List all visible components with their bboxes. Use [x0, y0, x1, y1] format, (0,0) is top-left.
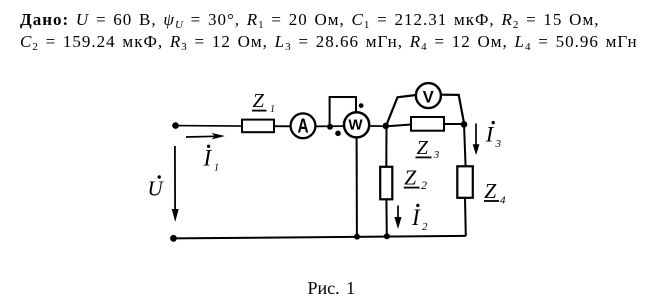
wire: Z2 down to bottom rail	[385, 199, 387, 236]
svg-text:Z: Z	[253, 90, 265, 112]
svg-text:W: W	[348, 117, 363, 134]
label I1	[203, 145, 220, 174]
impedance Z1	[242, 90, 275, 132]
impedance Z2	[380, 166, 427, 200]
svg-text:3: 3	[495, 138, 502, 150]
wire: wattmeter to node A	[369, 125, 387, 127]
label I2	[411, 204, 428, 233]
svg-text:1: 1	[270, 104, 275, 115]
polarity mark: top (voltage coil)	[359, 103, 364, 108]
wire: wattmeter voltage branch down to bottom rail	[356, 137, 358, 236]
current arrow I1	[186, 133, 225, 140]
wattmeter voltage coil loop	[330, 97, 356, 127]
svg-text:V: V	[423, 88, 434, 106]
wire: ammeter to wattmeter with junction	[315, 125, 345, 127]
current arrow I3	[473, 124, 480, 156]
svg-text:4: 4	[500, 194, 506, 206]
given data text	[20, 9, 638, 52]
svg-text:I: I	[411, 205, 421, 230]
voltage arrow U	[172, 146, 179, 222]
wire: voltmeter right down to node B	[441, 95, 464, 123]
wire: Z1 to ammeter	[274, 125, 291, 127]
caption	[308, 278, 356, 299]
wattmeter W	[344, 112, 369, 137]
svg-text:U: U	[148, 177, 165, 201]
wire: Z3 to node B	[444, 123, 463, 125]
ammeter A	[291, 113, 316, 138]
svg-text:I: I	[203, 146, 213, 171]
wire: node A up to voltmeter left	[386, 95, 416, 126]
wire: node A down to Z2	[385, 126, 387, 167]
impedance Z4	[457, 166, 506, 206]
wire: Z4 down to bottom rail corner	[464, 198, 467, 236]
impedance Z3	[411, 117, 444, 161]
node: Z2 bottom on rail	[384, 233, 390, 239]
wire: node A to Z3	[387, 125, 411, 127]
current arrow I2	[394, 206, 401, 230]
node: bottom-left terminal dot	[170, 235, 177, 242]
node B: right junction	[461, 121, 468, 128]
node A: junction after wattmeter	[383, 123, 390, 130]
svg-text:I: I	[485, 122, 495, 147]
wire: node B down to Z4	[464, 124, 466, 166]
polarity mark: bottom (current coil)	[335, 131, 341, 137]
node: junction at wattmeter current coil	[327, 124, 333, 130]
svg-text:3: 3	[433, 149, 440, 161]
label I3	[485, 121, 502, 150]
svg-text:Z: Z	[417, 137, 429, 159]
svg-text:2: 2	[421, 178, 427, 192]
svg-text:A: A	[297, 114, 308, 137]
voltmeter V	[416, 83, 441, 108]
svg-text:1: 1	[214, 163, 219, 174]
node: wattmeter bottom on rail	[354, 234, 360, 240]
label U	[148, 175, 165, 200]
svg-text:Z: Z	[484, 179, 497, 203]
wire: bottom rail	[173, 236, 466, 239]
svg-text:Z: Z	[404, 166, 417, 190]
svg-text:2: 2	[422, 221, 428, 233]
wire: top-left horizontal from source + terminal to Z1	[175, 125, 243, 128]
node: top-left terminal dot	[172, 122, 179, 129]
